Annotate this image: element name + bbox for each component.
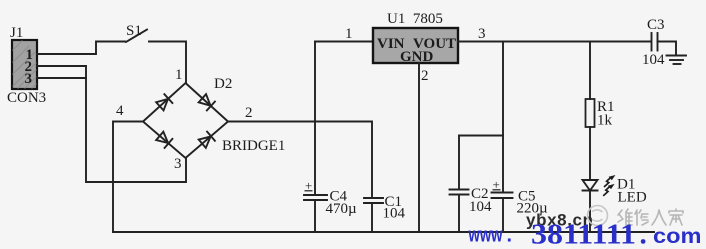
svg-text:104: 104 (642, 52, 665, 68)
svg-text:.: . (640, 219, 647, 249)
ground symbol (667, 55, 687, 57)
svg-text:104: 104 (383, 206, 406, 222)
svg-text:3: 3 (174, 156, 182, 172)
svg-text:D2: D2 (214, 76, 232, 92)
watermark www.3811111.com (468, 219, 702, 249)
wire J1 pin2 stub (37, 65, 86, 67)
svg-text:LED: LED (618, 190, 647, 206)
svg-text:2: 2 (421, 68, 429, 84)
switch S1 blade (126, 30, 147, 43)
wire U1 GND pin2 down (418, 63, 420, 232)
svg-text:www: www (468, 225, 503, 247)
U1 inner text (377, 36, 456, 65)
watermark CJK 维修人家 (618, 209, 683, 225)
capacitor C1 plates (364, 197, 383, 199)
svg-text:BRIDGE1: BRIDGE1 (222, 138, 285, 154)
wire C3 to ground symbol (658, 42, 677, 56)
wire C2 branch (458, 136, 460, 190)
svg-text:com: com (653, 225, 702, 248)
bridge diode 1-2 (198, 94, 215, 111)
regulator U1 body (373, 28, 458, 63)
capacitor C3 plates (651, 33, 653, 51)
connector J1 body (12, 40, 37, 89)
svg-text:470µ: 470µ (326, 201, 358, 217)
svg-text:U1 7805: U1 7805 (387, 11, 443, 27)
svg-text:GND: GND (400, 49, 434, 65)
wire C2-C5 top connector (459, 135, 503, 137)
LED D1 triangle (583, 180, 598, 191)
wire J1 pins2-3 down to bridge pin3 (86, 66, 186, 182)
bridge diode 3-2 (198, 132, 215, 149)
polarity underline C5 (493, 189, 501, 191)
wire J1 pin1 to S1 (37, 42, 125, 55)
ground rail bottom (113, 231, 654, 233)
wire S1 to bridge pin1 (149, 42, 186, 84)
capacitor C4 plates (304, 194, 327, 196)
svg-text:1k: 1k (597, 113, 613, 129)
wire VIN node vertical to C4 (314, 42, 316, 195)
wire bridge pin4 to ground rail (113, 122, 143, 233)
polarity underline C4 (305, 190, 313, 192)
led arrow 1 (604, 178, 611, 187)
svg-text:3: 3 (478, 26, 486, 42)
LED light arrows (603, 175, 615, 196)
svg-text:C3: C3 (647, 17, 665, 33)
svg-text:.: . (507, 225, 513, 247)
wire bridge pin2 to C1 (228, 122, 372, 198)
wire VOUT drop to C2/C5 (502, 42, 504, 193)
svg-text:S1: S1 (126, 23, 142, 39)
wire J1 pin3 stub (37, 77, 86, 79)
svg-text:1: 1 (345, 26, 353, 42)
svg-text:2: 2 (245, 105, 253, 121)
wire D1 to ground rail (589, 191, 591, 233)
wire VIN rail to U1 (315, 41, 373, 43)
svg-text:4: 4 (116, 103, 124, 119)
watermark logo circle (588, 206, 608, 226)
svg-text:1: 1 (175, 67, 183, 83)
LED D1 cathode bar (583, 190, 598, 192)
bridge D2 diamond (143, 83, 228, 158)
svg-text:J1: J1 (10, 25, 23, 41)
capacitor C5 plates (492, 192, 513, 194)
wire VOUT drop to R1 (589, 42, 591, 100)
capacitor C2 plates (450, 189, 469, 191)
svg-text:104: 104 (469, 199, 492, 215)
led arrow 2 (603, 187, 610, 196)
bridge diode 4-3 (156, 131, 173, 148)
bridge diode 4-1 (156, 94, 173, 111)
svg-text:3: 3 (25, 71, 33, 87)
svg-text:3811111: 3811111 (531, 219, 636, 249)
wire U1 VOUT rail (458, 41, 650, 43)
svg-text:CON3: CON3 (7, 90, 46, 106)
wire R1 to D1 (589, 127, 591, 180)
resistor R1 body (586, 99, 595, 127)
